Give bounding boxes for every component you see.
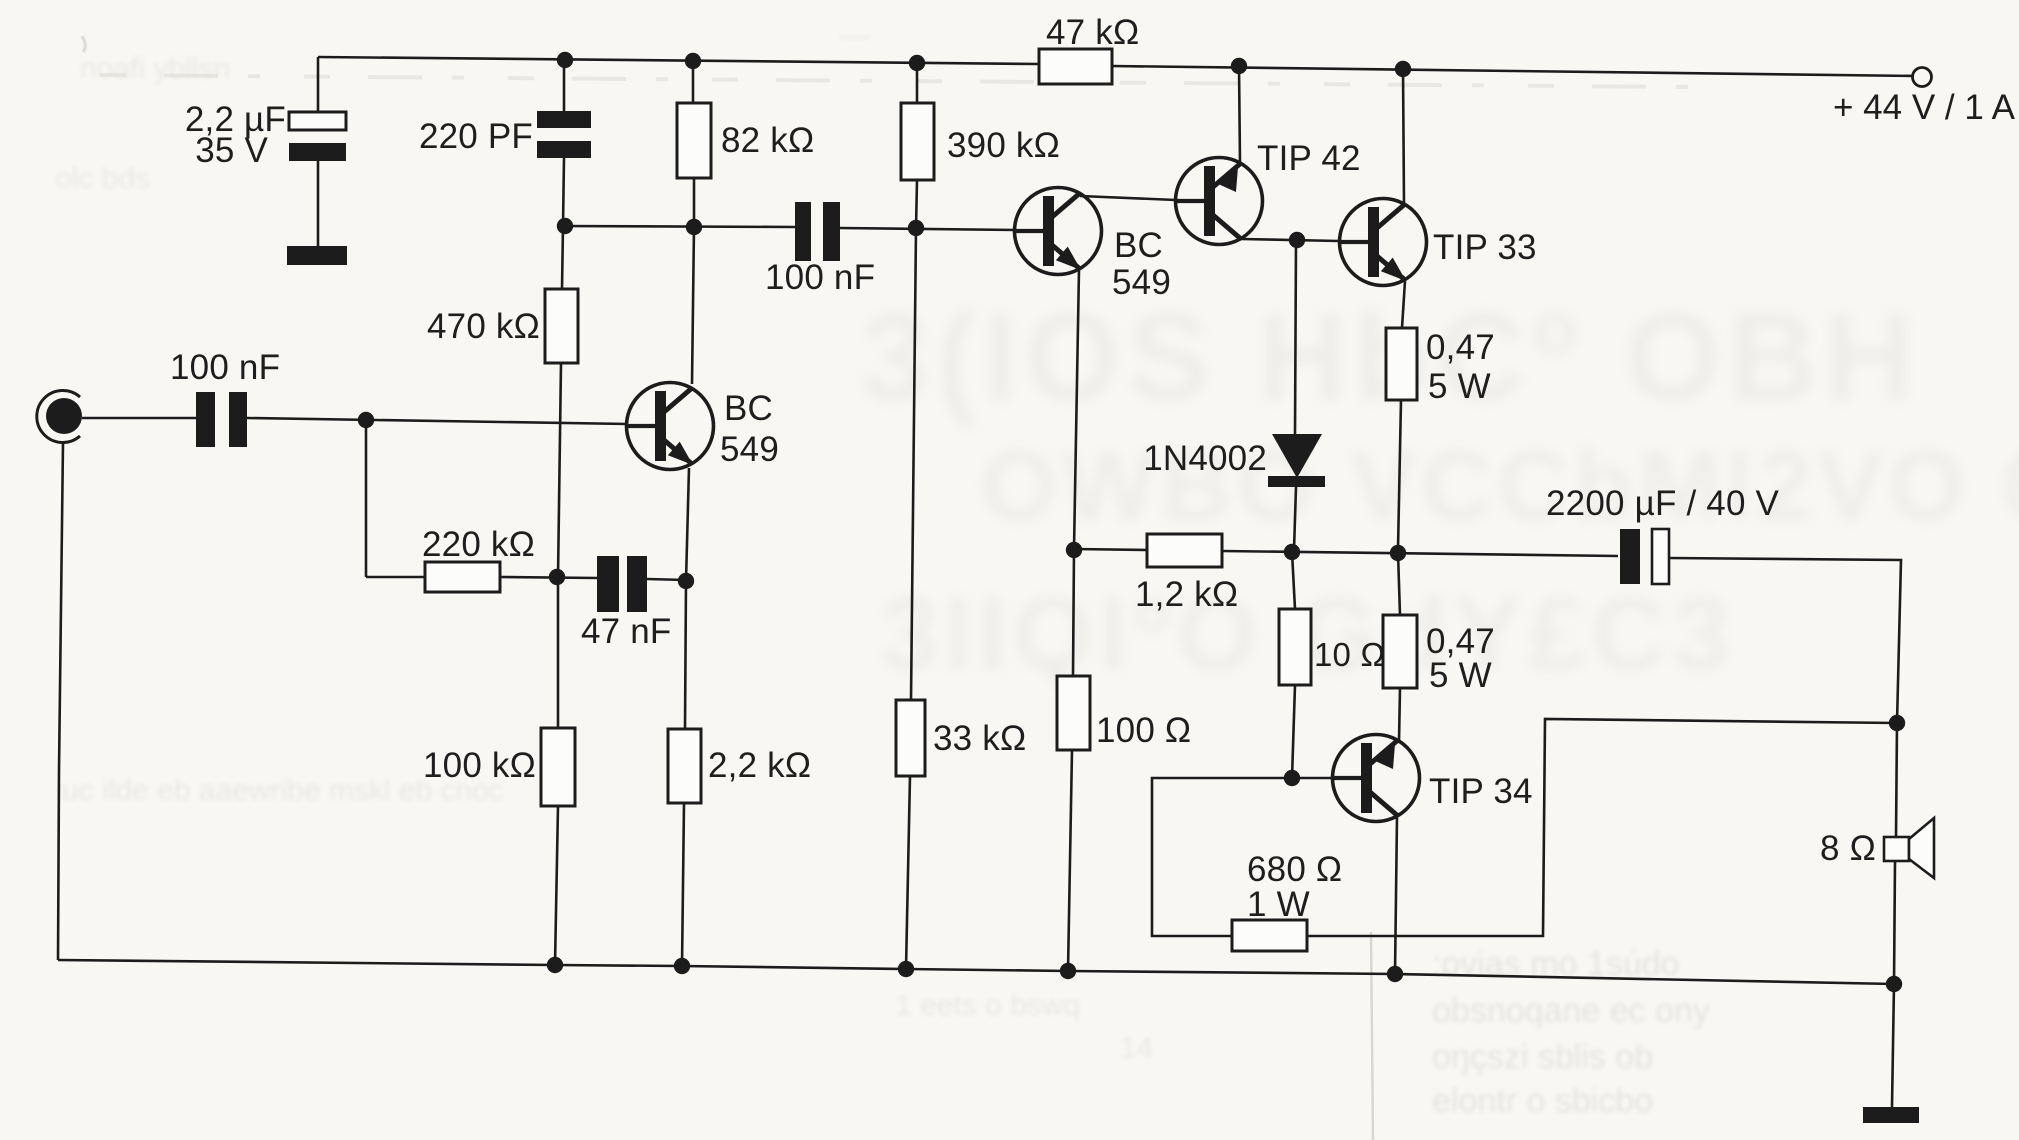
wire: [1239, 66, 1240, 163]
wire: [1295, 240, 1296, 434]
svg-text:549: 549: [1112, 263, 1171, 302]
transistor Q5 TIP34: [1332, 735, 1420, 822]
wire: [366, 576, 425, 579]
wire: [1292, 552, 1295, 609]
resistor R 47k: [1039, 49, 1112, 84]
resistor R 82k: [677, 103, 711, 178]
resistor R 470k: [545, 289, 578, 363]
wire: [500, 577, 597, 578]
capacitor 2,2uF 35V electrolytic: [185, 100, 346, 170]
svg-text:10 Ω: 10 Ω: [1314, 636, 1385, 673]
svg-text:TIP 33: TIP 33: [1433, 228, 1537, 267]
svg-text:0,47: 0,47: [1426, 328, 1495, 367]
resistor 1,2k: [1147, 534, 1222, 567]
node rail node 5: [1395, 61, 1411, 77]
svg-text:BC: BC: [724, 389, 773, 428]
wire: [1222, 551, 1618, 556]
wire: [1112, 66, 1917, 76]
wire: [1399, 688, 1400, 742]
wire: [82, 417, 196, 420]
wire: [1294, 487, 1296, 550]
svg-text:1,2 kΩ: 1,2 kΩ: [1135, 575, 1238, 614]
wire: [560, 226, 795, 227]
wire: [1074, 549, 1147, 550]
capacitor 47nF: [581, 556, 672, 651]
svg-text:33 kΩ: 33 kΩ: [933, 719, 1026, 758]
wire: [916, 63, 919, 103]
svg-text:47 nF: 47 nF: [581, 612, 672, 651]
label 680 Ω 1W: [1247, 850, 1342, 924]
svg-text:2,2 kΩ: 2,2 kΩ: [708, 746, 811, 785]
wire: [1307, 719, 1897, 936]
wire: [692, 178, 694, 384]
svg-text:220 PF: 220 PF: [419, 117, 533, 156]
wire: [1398, 553, 1400, 615]
wire: [1292, 777, 1332, 780]
resistor R 0,47 5W (lower): [1383, 615, 1417, 688]
svg-text:TIP 42: TIP 42: [1257, 139, 1361, 178]
node gnd node 4: [1060, 963, 1076, 979]
capacitor 100nF input: [170, 348, 280, 447]
svg-text:680 Ω: 680 Ω: [1247, 850, 1342, 889]
svg-text:2200 µF / 40 V: 2200 µF / 40 V: [1546, 484, 1780, 523]
svg-text:5 W: 5 W: [1428, 367, 1491, 406]
capacitor 100nF coupling (mid): [765, 202, 875, 297]
node bias node 1: [557, 218, 573, 234]
wire: [911, 180, 917, 700]
transistor Q3 TIP42: [1175, 158, 1263, 245]
svg-text:BC: BC: [1114, 226, 1163, 265]
resistor R 100R: [1057, 676, 1090, 750]
svg-text:100 Ω: 100 Ω: [1096, 711, 1191, 750]
svg-text:elontr o sbicbo: elontr o sbicbo: [1432, 1082, 1653, 1120]
node gnd node 2: [674, 958, 690, 974]
svg-text:390 kΩ: 390 kΩ: [947, 126, 1060, 165]
node input node: [358, 412, 374, 428]
wire: [317, 161, 320, 247]
resistor R 2,2k: [668, 729, 701, 803]
wire: [1669, 558, 1901, 723]
resistor R 10R: [1279, 609, 1311, 685]
wire: [685, 581, 686, 729]
svg-text:82 kΩ: 82 kΩ: [721, 121, 814, 160]
wire: [58, 442, 63, 960]
svg-text:1 W: 1 W: [1247, 885, 1310, 924]
wire: [840, 228, 1016, 230]
label 0,47 5W (upper): [1426, 328, 1495, 406]
node driver node: [1289, 232, 1305, 248]
wire: [686, 468, 689, 581]
svg-text:noafi ybllsn: noafi ybllsn: [80, 52, 230, 85]
wire: [1292, 685, 1295, 778]
ground (bottom right): [1863, 1107, 1919, 1123]
capacitor 220PF: [419, 111, 591, 158]
node Q1 emitter node: [678, 573, 694, 589]
resistor R 100k: [541, 728, 575, 806]
wire: [1894, 861, 1895, 984]
svg-text:35 V: 35 V: [195, 131, 268, 170]
node out node A: [1066, 542, 1082, 558]
diode 1N4002: [1268, 434, 1325, 487]
wire: [1073, 550, 1074, 676]
svg-text:8 Ω: 8 Ω: [1820, 829, 1876, 868]
node gnd node 1: [547, 957, 563, 973]
transistor Q2 BC549: [1014, 188, 1102, 275]
wire: [562, 158, 564, 289]
node rail node 3: [909, 55, 925, 71]
label BC 549 (Q1): [720, 389, 779, 469]
resistor R 390k: [901, 103, 934, 180]
speaker 8R: [1820, 818, 1934, 878]
wire: [1896, 723, 1897, 837]
wire: [563, 59, 566, 112]
svg-text:220 kΩ: 220 kΩ: [422, 525, 535, 564]
transistor Q4 TIP33: [1339, 199, 1427, 286]
wire: [1080, 196, 1176, 200]
wire: [58, 960, 1894, 984]
svg-text:47 kΩ: 47 kΩ: [1046, 13, 1139, 52]
svg-text:oŋçszi sblis ob: oŋçszi sblis ob: [1432, 1038, 1653, 1076]
wire: [906, 776, 910, 969]
svg-text:100 kΩ: 100 kΩ: [423, 746, 536, 785]
wire: [555, 806, 558, 965]
svg-text:1N4002: 1N4002: [1143, 439, 1267, 478]
ground (below 2,2uF): [287, 246, 347, 265]
resistor R 33k: [896, 700, 925, 776]
wire: [1395, 816, 1397, 974]
wire: [692, 61, 695, 103]
wire: [317, 57, 320, 113]
wire: [318, 57, 1039, 64]
node rail node 4: [1231, 58, 1247, 74]
input jack: [37, 391, 82, 443]
node rail node 2: [685, 53, 701, 69]
node out node C: [1390, 545, 1406, 561]
wire: [557, 577, 560, 728]
node feedback node: [549, 569, 565, 585]
wire: [1402, 281, 1405, 328]
svg-text:100 nF: 100 nF: [170, 348, 280, 387]
node gnd node 6: [1886, 976, 1902, 992]
resistor 680R 1W: [1232, 920, 1307, 951]
label BC 549 (Q2): [1112, 226, 1171, 302]
wire: [1398, 400, 1401, 549]
node speaker node: [1889, 715, 1905, 731]
wire: [1403, 69, 1404, 204]
terminal +44V output: [1833, 68, 2016, 128]
label 0,47 5W (lower): [1426, 622, 1495, 695]
capacitor 2200uF 40V output: [1546, 484, 1780, 584]
svg-text:1 eets o bswq: 1 eets o bswq: [895, 989, 1080, 1022]
node gnd node 5: [1387, 966, 1403, 982]
svg-text:TIP 34: TIP 34: [1429, 772, 1533, 811]
wire: [1892, 984, 1894, 1107]
svg-text:470 kΩ: 470 kΩ: [427, 307, 540, 346]
wire: [558, 363, 561, 577]
node bias node 2: [686, 219, 702, 235]
wire: [247, 418, 628, 424]
svg-text:olc bds: olc bds: [55, 162, 150, 195]
node Q5 base node: [1284, 770, 1300, 786]
node out node B: [1284, 544, 1300, 560]
resistor 220k: [425, 562, 500, 592]
svg-text:5 W: 5 W: [1429, 656, 1492, 695]
svg-text:549: 549: [720, 430, 779, 469]
transistor Q1 BC549: [626, 383, 714, 470]
svg-text:14: 14: [1120, 1032, 1153, 1065]
wire: [647, 579, 686, 580]
resistor R 0,47 5W (upper): [1386, 328, 1417, 400]
wire: [1074, 269, 1079, 549]
svg-text:100 nF: 100 nF: [765, 258, 875, 297]
wire: [1068, 750, 1072, 971]
node bias node 3: [908, 220, 924, 236]
svg-text:obsnoqane ec ony: obsnoqane ec ony: [1432, 992, 1710, 1030]
svg-text:OWBO VCCbMI2VO GM: OWBO VCCbMI2VO GM: [980, 430, 2019, 542]
node gnd node 3: [898, 961, 914, 977]
node rail node 1: [557, 52, 573, 68]
svg-text:+ 44 V / 1 A: + 44 V / 1 A: [1833, 88, 2016, 127]
wire: [682, 803, 684, 966]
svg-text:—: —: [840, 19, 870, 52]
wire: [1152, 778, 1292, 936]
wire: [1241, 239, 1339, 241]
wire: [365, 420, 368, 577]
